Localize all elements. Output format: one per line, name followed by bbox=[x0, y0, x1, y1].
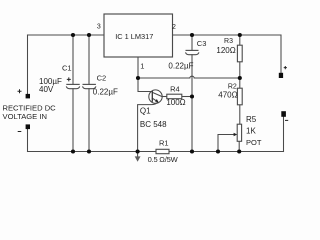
svg-text:40V: 40V bbox=[39, 85, 54, 94]
svg-text:1K: 1K bbox=[246, 127, 256, 136]
svg-text:R1: R1 bbox=[159, 138, 169, 147]
svg-text:2: 2 bbox=[172, 24, 176, 31]
svg-text:C2: C2 bbox=[97, 73, 107, 82]
svg-text:1: 1 bbox=[140, 61, 144, 70]
svg-text:0.5 Ω/5W: 0.5 Ω/5W bbox=[148, 155, 179, 164]
svg-text:BC 548: BC 548 bbox=[140, 120, 167, 129]
svg-text:100Ω: 100Ω bbox=[166, 98, 185, 107]
svg-text:0.22µF: 0.22µF bbox=[168, 62, 193, 71]
svg-text:0.22µF: 0.22µF bbox=[93, 88, 118, 97]
svg-text:VOLTAGE IN: VOLTAGE IN bbox=[3, 112, 47, 121]
svg-text:C3: C3 bbox=[197, 39, 207, 48]
svg-text:Q1: Q1 bbox=[140, 106, 151, 115]
svg-text:470Ω: 470Ω bbox=[218, 90, 237, 99]
svg-text:R4: R4 bbox=[170, 84, 180, 93]
svg-text:IC 1 LM317: IC 1 LM317 bbox=[115, 32, 153, 41]
svg-text:C1: C1 bbox=[62, 63, 72, 72]
svg-text:3: 3 bbox=[97, 24, 101, 31]
svg-text:R3: R3 bbox=[224, 38, 233, 45]
svg-text:120Ω: 120Ω bbox=[216, 46, 235, 55]
svg-text:R5: R5 bbox=[246, 115, 257, 124]
svg-text:POT: POT bbox=[246, 138, 262, 147]
